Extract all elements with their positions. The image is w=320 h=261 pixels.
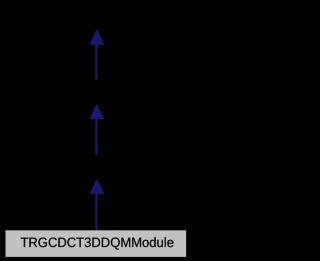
- node box: TRGCDCT3DDQMModule: [6, 230, 187, 257]
- arrowhead: edge 1: [90, 30, 105, 44]
- wire: inheritance edge 1 (top): [95, 44, 97, 80]
- svg-text:TRGCDCT3DDQMModule: TRGCDCT3DDQMModule: [20, 235, 174, 250]
- arrowhead: edge 2: [90, 105, 105, 119]
- wire: inheritance edge 2 (middle): [95, 119, 97, 155]
- arrowhead: edge 3: [90, 180, 105, 194]
- wire: inheritance edge 3 (bottom): [95, 194, 97, 231]
